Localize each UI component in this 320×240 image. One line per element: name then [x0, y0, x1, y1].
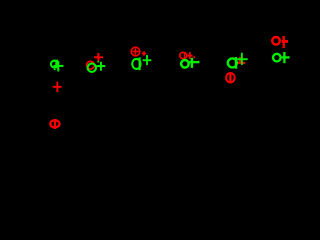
pin marker + of V4 (green cross, long right arm)	[189, 58, 199, 68]
source V2 old position (red circle)	[87, 61, 95, 69]
pin marker + of V6 (green cross)	[282, 52, 290, 63]
source V4 old position (red circle)	[180, 52, 187, 58]
source V6 old position (red circle)	[272, 37, 280, 45]
source V6 (green circle)	[273, 54, 281, 62]
pin marker + of V2 old (red cross)	[94, 53, 103, 62]
pin marker + of V2 (green cross)	[96, 61, 105, 71]
source V5 (green circle with bar)	[228, 57, 237, 69]
source V1 (green circle symbol with cross)	[51, 60, 64, 72]
source V2 (green circle)	[88, 63, 96, 71]
pin marker + of V3 (green cross)	[143, 55, 152, 65]
lamp symbol (red circle with bar, left)	[50, 119, 59, 129]
lamp symbol of V5 old (red circle with bar)	[226, 73, 235, 83]
pin marker + of V5 (green cross)	[237, 53, 248, 65]
source V4 (green circle)	[181, 60, 189, 68]
pin marker + (red cross A)	[53, 82, 62, 92]
pin marker + of V3 old (small red cross)	[142, 51, 146, 55]
source V3 (green circle with bar)	[132, 57, 140, 70]
pin marker + of V4 old (red cross with dot)	[188, 52, 195, 59]
pin marker + of V6 old (red cross)	[282, 36, 288, 48]
pin marker + of V5 old (red cross, under green)	[237, 57, 246, 64]
source V3 old position (red circled-plus)	[131, 47, 140, 56]
